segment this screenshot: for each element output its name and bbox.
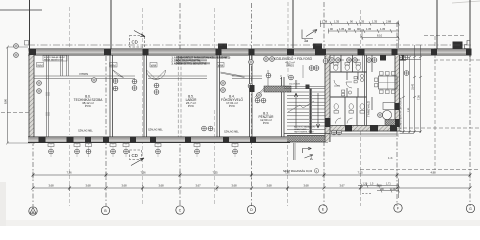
svg-text:CD: CD — [132, 40, 138, 45]
vent pair corridor stairs — [309, 66, 319, 71]
half grid x287 dashed — [287, 2, 290, 206]
svg-text:WM: WM — [151, 63, 157, 67]
left vertical dimension line — [6, 46, 28, 145]
big vent meeting room — [378, 113, 383, 118]
svg-text:SZINT MAGASSÁG ±0,00: SZINT MAGASSÁG ±0,00 — [283, 170, 313, 173]
svg-text:7,36: 7,36 — [140, 171, 146, 175]
stair landing edge vline — [296, 80, 297, 89]
B3 top wall hatched — [264, 86, 291, 92]
door leaf B6 diagonal — [113, 70, 124, 78]
bottom dimension labels row2 — [48, 184, 382, 188]
svg-text:G: G — [469, 207, 472, 211]
CD detail box top — [130, 31, 146, 48]
wc partition x357 bottom — [356, 97, 358, 126]
wc partition x345 bottom — [344, 97, 346, 126]
svg-text:PVC: PVC — [229, 104, 236, 108]
toilet top 3 — [356, 63, 361, 71]
half grid x214 dashed — [214, 8, 216, 206]
vent pairs below top band — [264, 57, 275, 62]
wall pier x219 — [216, 49, 222, 56]
wc partition x352 top — [352, 55, 354, 72]
grid bubble C — [176, 206, 184, 214]
vent pair E wall — [323, 59, 333, 64]
bottom wall dark pier 3 — [390, 125, 397, 132]
svg-text:3,67: 3,67 — [195, 184, 201, 188]
bottom wall pier x253 — [250, 137, 256, 144]
vitrine stub wall 1 — [61, 55, 63, 76]
bottom wall pier x188 — [185, 137, 191, 144]
svg-text:1.38: 1.38 — [322, 20, 328, 24]
grid line G dashed — [469, 57, 471, 206]
right block outline — [331, 55, 400, 134]
top dimension line row1 — [320, 21, 400, 28]
wc urinal circles — [348, 74, 363, 94]
svg-text:7,35: 7,35 — [357, 171, 363, 175]
sill marker x88 — [86, 144, 92, 154]
cabinet right wall — [383, 103, 395, 110]
svg-text:1.35: 1.35 — [334, 20, 340, 24]
sill marker x197 — [194, 144, 200, 154]
svg-text:3,68: 3,68 — [48, 184, 54, 188]
grid bubble E — [319, 205, 327, 213]
vent pair x207 horizontal — [202, 126, 213, 131]
svg-text:GRES: GRES — [286, 63, 294, 67]
room label B3 — [259, 112, 275, 125]
grid line E dashed — [323, 2, 325, 206]
room label B5 — [186, 95, 198, 108]
radiator dark box x383 — [380, 56, 386, 61]
scan noise bottom strip — [0, 220, 480, 226]
chimney box x457 — [453, 42, 463, 49]
grid bubble A — [29, 207, 37, 215]
scan noise top right — [452, 1, 480, 3]
svg-text:16 ELŐREGYÁRTOTT LÉPCSŐFOK: 16 ELŐREGYÁRTOTT LÉPCSŐFOK — [399, 97, 402, 132]
svg-text:PVC: PVC — [85, 104, 92, 108]
svg-text:8.10: 8.10 — [377, 34, 383, 38]
half grid x360 dashed — [360, 10, 362, 206]
vent single D top — [249, 60, 254, 65]
vent pair B5 — [154, 83, 159, 94]
staircase — [284, 80, 325, 134]
chairs top row — [380, 72, 396, 76]
entrance porch slab hatched — [287, 136, 328, 143]
dashed horizontal y112 left — [1, 112, 29, 114]
svg-text:PVC: PVC — [263, 121, 270, 125]
svg-text:3,68: 3,68 — [158, 184, 164, 188]
wall line x111 top — [110, 0, 112, 50]
grid bubble D — [247, 205, 255, 213]
svg-text:3,68: 3,68 — [121, 184, 127, 188]
wall pier x361 — [358, 49, 365, 56]
svg-text:A: A — [310, 156, 313, 161]
wc top row extra lines — [334, 55, 363, 72]
sideboard hatched — [385, 120, 396, 126]
bottom wall pier x42 — [39, 137, 46, 144]
exterior wall bottom band left wing — [28, 137, 290, 143]
vent single corridor 1 — [92, 78, 97, 83]
wc sink rects — [342, 77, 358, 96]
chairs left — [375, 78, 378, 87]
svg-text:1.35: 1.35 — [372, 20, 378, 24]
grid line A dashed — [32, 120, 34, 206]
stair walk arrow up — [294, 93, 297, 128]
B3 wall pier — [250, 85, 255, 92]
svg-text:3,67: 3,67 — [339, 184, 345, 188]
svg-text:3,68: 3,68 — [85, 184, 91, 188]
note text underlays — [176, 56, 227, 64]
stair break line — [288, 101, 314, 112]
sill marker x158 — [155, 144, 161, 154]
duct wall x372 — [371, 55, 373, 110]
E wall dark pier — [325, 118, 331, 127]
porch note text — [294, 126, 315, 134]
dashed horizontal y128 right — [403, 127, 480, 129]
wall pier A top — [29, 49, 36, 56]
wall line x293 top — [292, 0, 294, 48]
wc wall y97 — [331, 96, 367, 98]
stair bottom wall — [284, 133, 330, 135]
wc partition x341 top — [340, 55, 342, 72]
room label B6 — [74, 95, 104, 108]
toilet top 2 — [345, 63, 350, 71]
wall line x437 top — [436, 0, 438, 50]
svg-text:1.35: 1.35 — [366, 27, 372, 31]
svg-text:1,40: 1,40 — [391, 188, 396, 191]
svg-text:WM: WM — [110, 63, 116, 67]
corridor tie vline — [302, 65, 304, 78]
window axis dashes — [51, 143, 235, 158]
partition wall x145 — [144, 55, 147, 137]
meeting table — [379, 76, 398, 89]
note box window left — [43, 56, 67, 62]
stair treads right flight — [312, 92, 325, 129]
top dimension line row2 — [328, 29, 399, 34]
top left horizontal line — [0, 9, 42, 11]
toilet bottom 3 — [360, 104, 365, 113]
svg-text:SZALAG ABL.: SZALAG ABL. — [78, 130, 93, 133]
svg-text:1.35: 1.35 — [339, 27, 345, 31]
wall pier x252 — [249, 49, 255, 56]
wall pier x397 — [392, 49, 398, 56]
entry arrow 2 — [305, 155, 314, 158]
wc lobby partition x358 mid — [357, 72, 359, 97]
wall line x470 top — [469, 0, 471, 57]
bottom dimension line row1 — [32, 172, 472, 179]
corridor label — [274, 56, 313, 67]
grid line F dashed — [396, 22, 398, 206]
vent pair left wall — [14, 44, 19, 58]
B3 door leaf — [255, 88, 265, 99]
partition wall x48 in B6 — [47, 55, 49, 137]
toilet bottom 1 — [334, 104, 339, 113]
roof overhang dashed line — [28, 44, 471, 46]
steps detail near G — [465, 41, 471, 49]
vent pair x115 — [113, 79, 118, 91]
svg-text:7,36: 7,36 — [418, 95, 421, 100]
dashed horizontal y169 right — [360, 169, 480, 171]
bottom wall dark pier 2 — [370, 125, 378, 132]
top dimension line row3 — [361, 21, 400, 49]
small box top left corner — [25, 41, 29, 46]
right dim connector — [400, 60, 422, 134]
bottom wall pier x133 — [130, 137, 136, 144]
svg-text:1.35: 1.35 — [359, 20, 365, 24]
room label B4 — [221, 95, 243, 108]
svg-text:3,68: 3,68 — [231, 184, 237, 188]
CD detail box bottom — [130, 150, 145, 166]
svg-text:1·K: 1·K — [388, 156, 393, 160]
svg-text:PVC: PVC — [188, 104, 195, 108]
stair top landing line — [284, 87, 325, 89]
svg-text:18,40: 18,40 — [412, 83, 415, 90]
wall pier x107 — [104, 49, 111, 56]
svg-text:3. NÖVÉNYZETTEL BEÜLTETVE: 3. NÖVÉNYZETTEL BEÜLTETVE — [172, 62, 207, 65]
svg-text:RÉSZE MÁSKÉNT NY.: RÉSZE MÁSKÉNT NY. — [44, 59, 64, 62]
grid line D dashed — [251, 3, 253, 206]
entry arrow 1 — [303, 147, 312, 153]
svg-text:1,20: 1,20 — [363, 183, 368, 186]
B3 duct vline — [267, 70, 269, 86]
svg-text:2.88: 2.88 — [386, 20, 392, 24]
half grid x69 dashed — [69, 7, 71, 206]
radiator dark box x403 — [400, 56, 406, 61]
radiator WM box x153 — [150, 63, 157, 68]
partition wall x111 — [110, 55, 113, 137]
mini dimension cluster bottom right — [358, 179, 400, 199]
vent single corridor 3 — [289, 75, 294, 80]
grid bubble F — [394, 204, 402, 212]
chimney box x317 — [313, 44, 322, 50]
bottom wall pier x106 — [103, 137, 109, 144]
svg-text:3a: 3a — [304, 39, 308, 43]
door arc into B5 double — [147, 70, 166, 80]
wall pier x434 — [431, 49, 437, 56]
vent pair on bottom wall — [332, 130, 342, 135]
svg-text:1,71: 1,71 — [386, 183, 391, 186]
right block bottom wall — [331, 126, 400, 132]
svg-text:TARTÓSZERK. TERV: TARTÓSZERK. TERV — [294, 131, 314, 134]
bottom wall pier x88 — [85, 137, 91, 144]
bottom wall pier x153 — [150, 137, 156, 144]
wc door arc mid 1 — [334, 80, 340, 86]
svg-text:1. A SZABADRÉSZT PARKOSÍTANI K: 1. A SZABADRÉSZT PARKOSÍTANI KELL (LÁSD … — [172, 56, 231, 59]
vitrine line corridor — [34, 76, 282, 78]
wc bottom cubicle doors — [336, 118, 353, 124]
B3 vent cluster — [255, 93, 266, 103]
level note — [283, 169, 319, 173]
chairs bottom row — [380, 90, 396, 94]
right block terrace line — [331, 133, 398, 135]
stair newel block — [306, 85, 310, 90]
stair treads left flight — [287, 92, 309, 129]
grid bubble G — [466, 204, 474, 212]
detail marker 3a — [302, 30, 317, 39]
vent right outside — [404, 71, 409, 76]
svg-text:SZALAG ABL.: SZALAG ABL. — [148, 129, 163, 132]
sill marker x77 — [74, 144, 80, 154]
svg-text:4,98: 4,98 — [430, 171, 436, 175]
partition wall x218 — [217, 55, 220, 137]
top left wall line — [29, 0, 31, 50]
boundary dashed x435 — [434, 36, 436, 170]
radiator WM box x110 — [110, 63, 118, 68]
table inner lines — [379, 76, 398, 89]
bottom dimension labels row1 — [66, 171, 436, 175]
vent pair B4 — [221, 81, 226, 93]
grid line C dashed — [179, 3, 181, 206]
bottom wall pier x67 — [67, 137, 74, 144]
exterior wall left band — [29, 55, 35, 144]
sill marker x126 — [123, 144, 129, 154]
toilet top 1 — [334, 63, 339, 71]
bottom dimension line row2 — [32, 185, 472, 191]
chimney box x222 — [218, 44, 227, 50]
note text planting middle — [172, 56, 231, 65]
bottom wall dark pier 1 — [345, 125, 352, 132]
toilet bottom 2 — [349, 104, 354, 113]
right vertical dimension line 1 — [402, 45, 422, 133]
wc wall y72 — [331, 71, 367, 73]
svg-text:1.35: 1.35 — [380, 27, 386, 31]
svg-text:16x17,9/28: 16x17,9/28 — [289, 83, 301, 85]
svg-text:SZALAG ABL.: SZALAG ABL. — [224, 131, 239, 134]
dashed horizontal y36 top right — [424, 35, 466, 37]
door leaf B4 diagonal — [221, 72, 245, 78]
meeting room wall x366 — [365, 55, 367, 126]
bottom wall pier x226 — [223, 137, 229, 144]
hinge ticks on x48 wall — [46, 93, 51, 115]
wc door arc mid 2 — [346, 82, 352, 88]
wall pier x146 — [143, 49, 149, 56]
radiator WM box x40 — [37, 63, 44, 68]
partition wall x282 stair left — [282, 77, 285, 137]
wall pier x290 — [287, 49, 294, 56]
stair center wall — [310, 89, 312, 134]
svg-text:7,36: 7,36 — [66, 171, 72, 175]
svg-text:7,35: 7,35 — [212, 171, 218, 175]
sill marker x51 — [48, 144, 54, 154]
svg-text:3,68: 3,68 — [303, 184, 309, 188]
round table — [382, 110, 391, 119]
entrance column line — [294, 143, 296, 160]
wc lobby partition x347 mid — [346, 72, 348, 97]
svg-text:3,68: 3,68 — [266, 184, 272, 188]
svg-text:TÁRGYALÓ: TÁRGYALÓ — [366, 100, 371, 117]
dashed horizontal y60 right — [434, 59, 480, 61]
svg-text:WM: WM — [37, 63, 43, 67]
svg-text:2. ÖRÖK ZÖLD PÁZSITTAL: 2. ÖRÖK ZÖLD PÁZSITTAL — [172, 59, 202, 62]
right wall dark pier 2 — [395, 119, 400, 127]
right block right wall hatched — [395, 55, 400, 131]
svg-text:F: F — [397, 207, 399, 211]
svg-text:CD: CD — [132, 153, 138, 158]
right wall dark pier 1 — [395, 103, 400, 110]
svg-text:WM: WM — [218, 63, 224, 67]
svg-text:VITRIN: VITRIN — [79, 72, 88, 76]
stair right wall hatched — [325, 55, 331, 142]
vitrine stub wall 2 — [67, 55, 69, 76]
wall pier x321 — [315, 49, 326, 56]
scan noise left edge — [0, 182, 6, 226]
grid bubble B — [101, 206, 109, 214]
sill marker x235 — [232, 144, 238, 154]
partition wall x250 — [250, 55, 253, 137]
grid line B dashed — [105, 56, 107, 206]
radiator WM box x220 — [217, 63, 224, 68]
half grid x142 dashed — [142, 8, 144, 206]
wall pier G top — [466, 49, 472, 56]
svg-text:8,80: 8,80 — [4, 98, 8, 104]
vent single above B3 — [266, 73, 271, 78]
mini dim labels — [363, 183, 396, 191]
terrace edge lines — [331, 134, 400, 136]
sill marker x113 — [110, 144, 116, 154]
vent big grid D — [248, 84, 253, 89]
vent pair B6 left — [37, 81, 42, 94]
vent pair x134 — [132, 79, 137, 90]
exterior wall top band — [28, 49, 471, 55]
stair walk arrow down — [316, 93, 319, 128]
